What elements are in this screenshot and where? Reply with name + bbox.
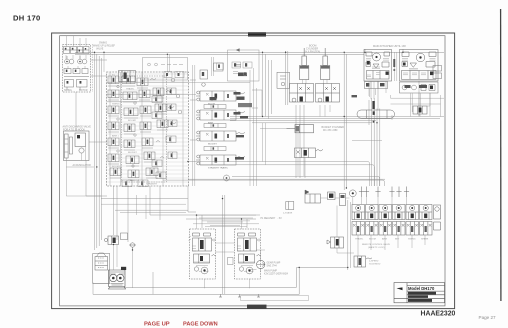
schematic inner border frame [60, 36, 445, 306]
mcv inner vertical rails [110, 72, 183, 186]
regulator ladder rungs [193, 215, 259, 227]
right column relief cluster [214, 63, 242, 71]
svg-text:SWING: SWING [64, 90, 72, 92]
accumulator wires [66, 147, 94, 168]
wire mid connects [188, 80, 262, 212]
svg-text:STRAIGHT: STRAIGHT [146, 183, 158, 186]
svg-text:2-STAGE: 2-STAGE [283, 212, 293, 215]
bank wires [321, 197, 426, 256]
tank symbols on return line [219, 294, 260, 297]
travel motor block left [364, 50, 392, 82]
right side mid wires [352, 93, 444, 140]
svg-text:SAE J744: SAE J744 [267, 264, 278, 267]
svg-text:REMOTE CONTROL VALVE: REMOTE CONTROL VALVE [362, 243, 390, 246]
bank plus symbols [359, 187, 409, 198]
svg-text:MOTOR: MOTOR [79, 90, 88, 92]
right column side dark texts [234, 92, 249, 160]
regulator hatch details right [237, 239, 259, 272]
mcv inner dashed box [122, 76, 167, 182]
right column top components [200, 70, 208, 86]
relief box R2 [228, 49, 260, 82]
between regulators small box [228, 258, 234, 265]
bottom center box [241, 296, 309, 301]
swing motor block outline [63, 45, 91, 93]
wire right vertical bus [369, 98, 380, 186]
relief valve near bank [286, 202, 294, 210]
bank right end component [434, 205, 441, 230]
anti drift block outline [64, 131, 90, 161]
right valve column rails [193, 65, 257, 186]
pump inlet valve [104, 236, 118, 245]
bank lower pair valve [354, 256, 372, 267]
svg-text:K3V112DT-1XER-9N24: K3V112DT-1XER-9N24 [264, 273, 289, 275]
wire center vertical pair [223, 195, 225, 294]
wire lower cross line 1 [101, 198, 188, 200]
bank below small valve [327, 237, 344, 248]
wire mcv down to pumps [114, 186, 183, 242]
svg-text:STRAIGHT TRAVEL: STRAIGHT TRAVEL [208, 167, 229, 170]
bank feed circle [349, 190, 356, 197]
wire boom valves down [296, 105, 304, 178]
wire bottom long return [110, 268, 348, 288]
wire rails above mcv [104, 52, 170, 72]
wire top right feeds [365, 49, 430, 116]
left block bottom row [365, 82, 388, 89]
swing motor label text [93, 42, 116, 51]
wire swing dashed vertical [92, 44, 94, 92]
boom cylinder 1 [300, 48, 309, 80]
mcv cross lines [107, 83, 250, 102]
title block text row4 [408, 299, 432, 302]
bucket cylinder [287, 125, 314, 133]
svg-text:ARM 1: ARM 1 [112, 135, 119, 138]
svg-text:LH & RH (2EA): LH & RH (2EA) [304, 50, 320, 53]
swing motor circles [65, 56, 87, 64]
boom left side box [277, 72, 290, 88]
wire center horizontal bus [230, 117, 444, 123]
swing block top stubs [67, 36, 87, 47]
svg-text:P1 DELIVERY → P2: P1 DELIVERY → P2 [261, 218, 283, 220]
page right edge line [500, 9, 502, 301]
svg-text:Page 27: Page 27 [479, 315, 497, 320]
svg-text:90 x 95 x 880: 90 x 95 x 880 [323, 129, 338, 132]
motor block right hatch [402, 59, 436, 75]
accumulator cylinder 2 [69, 137, 72, 154]
schematic outer border frame [52, 33, 455, 309]
title block logo arrow [397, 287, 403, 290]
svg-text:PAGE DOWN: PAGE DOWN [183, 321, 218, 327]
filter outer box [93, 254, 110, 284]
regulator cross wires [197, 215, 250, 288]
pump regulator right [235, 229, 261, 279]
mid right small component [413, 106, 427, 114]
svg-text:PAGE UP: PAGE UP [144, 321, 170, 327]
regulator hatch details left [189, 236, 215, 272]
svg-text:BOOM: BOOM [369, 239, 376, 241]
right column valve row 4 [196, 155, 245, 165]
wire top bus [75, 51, 444, 53]
bucket valve [295, 148, 324, 158]
shuttle valve box upper left [119, 71, 136, 82]
motor blocks mid verticals [369, 52, 397, 99]
title block [394, 283, 445, 303]
anti drift valve box [75, 133, 86, 147]
top right lower components [400, 82, 439, 93]
right column narrow interrows [204, 105, 226, 109]
svg-text:MAIN ATTACHED UNTIL 138: MAIN ATTACHED UNTIL 138 [373, 45, 406, 48]
pump regulator left [190, 229, 216, 279]
wire boom right verticals [344, 52, 346, 190]
mcv extra cells [152, 96, 162, 103]
hot oil shuttle component [357, 110, 395, 118]
svg-text:TRAVEL: TRAVEL [355, 238, 364, 241]
accumulator cylinder 1 [65, 134, 69, 158]
wire center verticals upper [263, 52, 272, 118]
title block text row3 [408, 295, 428, 298]
svg-text:ACCUMULATOR: ACCUMULATOR [73, 164, 92, 167]
anti drift circle [79, 148, 84, 153]
wire mcv to bank route [188, 178, 290, 180]
wire boom left verticals [286, 51, 288, 105]
wire bus drops to corner routes [263, 123, 266, 165]
wire regulators top link [182, 215, 260, 228]
wire left vertical bus [95, 52, 102, 250]
filter stack [95, 257, 108, 271]
svg-text:MAIN PUMP: MAIN PUMP [264, 270, 277, 273]
swing block relief valves top row [64, 47, 90, 54]
boom holding valve group 1 [290, 84, 314, 103]
boom cylinder 2 [321, 48, 330, 80]
right column valve row 1 [196, 91, 245, 101]
swing block stub wires [66, 55, 86, 69]
wire bottom left branch [93, 272, 153, 294]
wire top bus 2 [75, 53, 364, 55]
svg-text:HAAE2320: HAAE2320 [421, 311, 456, 318]
svg-text:VALVE: VALVE [96, 47, 104, 50]
wire bank top line [290, 178, 385, 180]
filter top hat [97, 253, 107, 257]
svg-text:ARM: ARM [208, 122, 213, 125]
swing block mid valves [64, 69, 89, 91]
main control valve outline [107, 72, 189, 186]
wire lower cross line 2 [115, 209, 188, 211]
title block text row2 [408, 292, 436, 295]
svg-text:SWING: SWING [112, 104, 120, 106]
wire left block to mcv [76, 60, 107, 196]
svg-text:2-SPEED: 2-SPEED [369, 261, 379, 263]
svg-text:BKT: BKT [395, 239, 400, 241]
svg-text:ARM: ARM [382, 238, 387, 241]
right column valve row 3 [196, 131, 245, 141]
wire left of accumulator [66, 167, 101, 196]
wire cornered routes to bank [163, 162, 385, 187]
anti drift label text [63, 126, 92, 132]
wire lower cross line 3 [101, 195, 186, 219]
wire bank vertical feed [348, 200, 351, 270]
wire boom right stubs down [320, 105, 330, 117]
svg-text:GEAR PUMP: GEAR PUMP [267, 262, 281, 265]
pilot pump wires [248, 250, 265, 272]
boom holding valve group 2 [316, 84, 340, 103]
svg-text:BUCKET: BUCKET [128, 152, 138, 154]
top dimension label [248, 32, 266, 36]
boom cylinder label [304, 45, 320, 54]
svg-text:BUCKET: BUCKET [208, 144, 218, 146]
boom cylinder feed wires [303, 80, 327, 84]
right block side boxes [433, 66, 442, 79]
solenoid bank bottom row [352, 222, 432, 236]
motor block left hatch [366, 59, 389, 77]
mcv tiny labels [112, 74, 158, 185]
mcv spring and arrow marks [117, 78, 182, 167]
mid top marks [212, 57, 224, 76]
travel motor block right [400, 50, 439, 82]
pump wires [93, 245, 133, 289]
bucket valve wires [260, 129, 305, 178]
svg-text:DH 170: DH 170 [13, 14, 41, 23]
pilot pump circle [257, 260, 265, 268]
mcv horizontal dashes [108, 74, 189, 182]
pilot pump label [264, 262, 289, 276]
solenoid bank top row [352, 205, 432, 220]
pump tee fitting [129, 243, 136, 250]
inter-block dark bar [393, 59, 395, 67]
svg-text:Model DH170: Model DH170 [408, 286, 435, 291]
bottom dimension label [247, 305, 267, 309]
svg-text:BOOM2: BOOM2 [128, 120, 137, 122]
right column valve row 2 [196, 110, 245, 120]
bank left small components [305, 190, 346, 206]
svg-text:BOOM1: BOOM1 [112, 166, 121, 168]
blocks descend wires [369, 89, 420, 117]
swing block bottom labels [64, 90, 88, 92]
main pump body [109, 270, 126, 289]
svg-text:(SAFETY LOCK): (SAFETY LOCK) [368, 246, 385, 249]
left small box near pump [121, 233, 128, 240]
svg-text:ARM 2: ARM 2 [130, 179, 137, 182]
right column bottom circle [224, 175, 230, 181]
pilot box R1 [143, 58, 188, 81]
bucket cylinder label [322, 126, 345, 132]
svg-text:SOLENOID: SOLENOID [369, 263, 381, 265]
bank below labels [355, 238, 429, 250]
mcv valve cells [108, 76, 119, 86]
wire bottom return 2 [93, 267, 299, 294]
